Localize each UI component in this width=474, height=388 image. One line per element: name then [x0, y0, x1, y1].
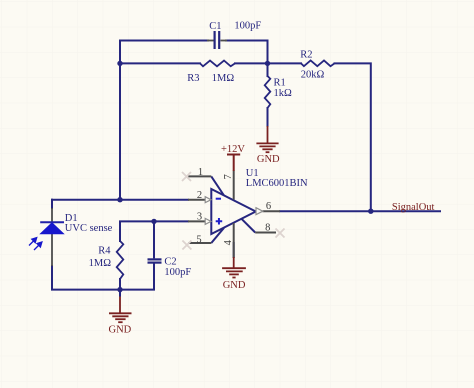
- svg-text:8: 8: [265, 223, 270, 234]
- svg-text:1MΩ: 1MΩ: [212, 73, 235, 84]
- svg-text:GND: GND: [223, 280, 246, 291]
- svg-text:R4: R4: [98, 246, 111, 257]
- svg-text:GND: GND: [109, 325, 132, 336]
- svg-text:20kΩ: 20kΩ: [301, 69, 325, 80]
- svg-text:UVC sense: UVC sense: [65, 223, 113, 234]
- svg-text:1MΩ: 1MΩ: [89, 258, 112, 269]
- svg-text:C1: C1: [209, 21, 221, 32]
- svg-text:3: 3: [197, 211, 202, 222]
- svg-text:GND: GND: [257, 154, 280, 165]
- svg-text:100pF: 100pF: [234, 21, 261, 32]
- svg-text:1kΩ: 1kΩ: [274, 88, 293, 99]
- svg-text:1: 1: [198, 167, 203, 178]
- svg-text:LMC6001BIN: LMC6001BIN: [246, 178, 308, 189]
- svg-text:7: 7: [223, 174, 234, 179]
- svg-text:SignalOut: SignalOut: [392, 202, 435, 213]
- svg-text:5: 5: [196, 235, 201, 246]
- svg-text:6: 6: [266, 201, 271, 212]
- svg-text:2: 2: [197, 190, 202, 201]
- svg-text:4: 4: [223, 239, 234, 245]
- svg-text:100pF: 100pF: [164, 267, 191, 278]
- svg-text:R2: R2: [300, 50, 312, 61]
- svg-text:+12V: +12V: [221, 144, 245, 155]
- svg-text:R3: R3: [187, 73, 199, 84]
